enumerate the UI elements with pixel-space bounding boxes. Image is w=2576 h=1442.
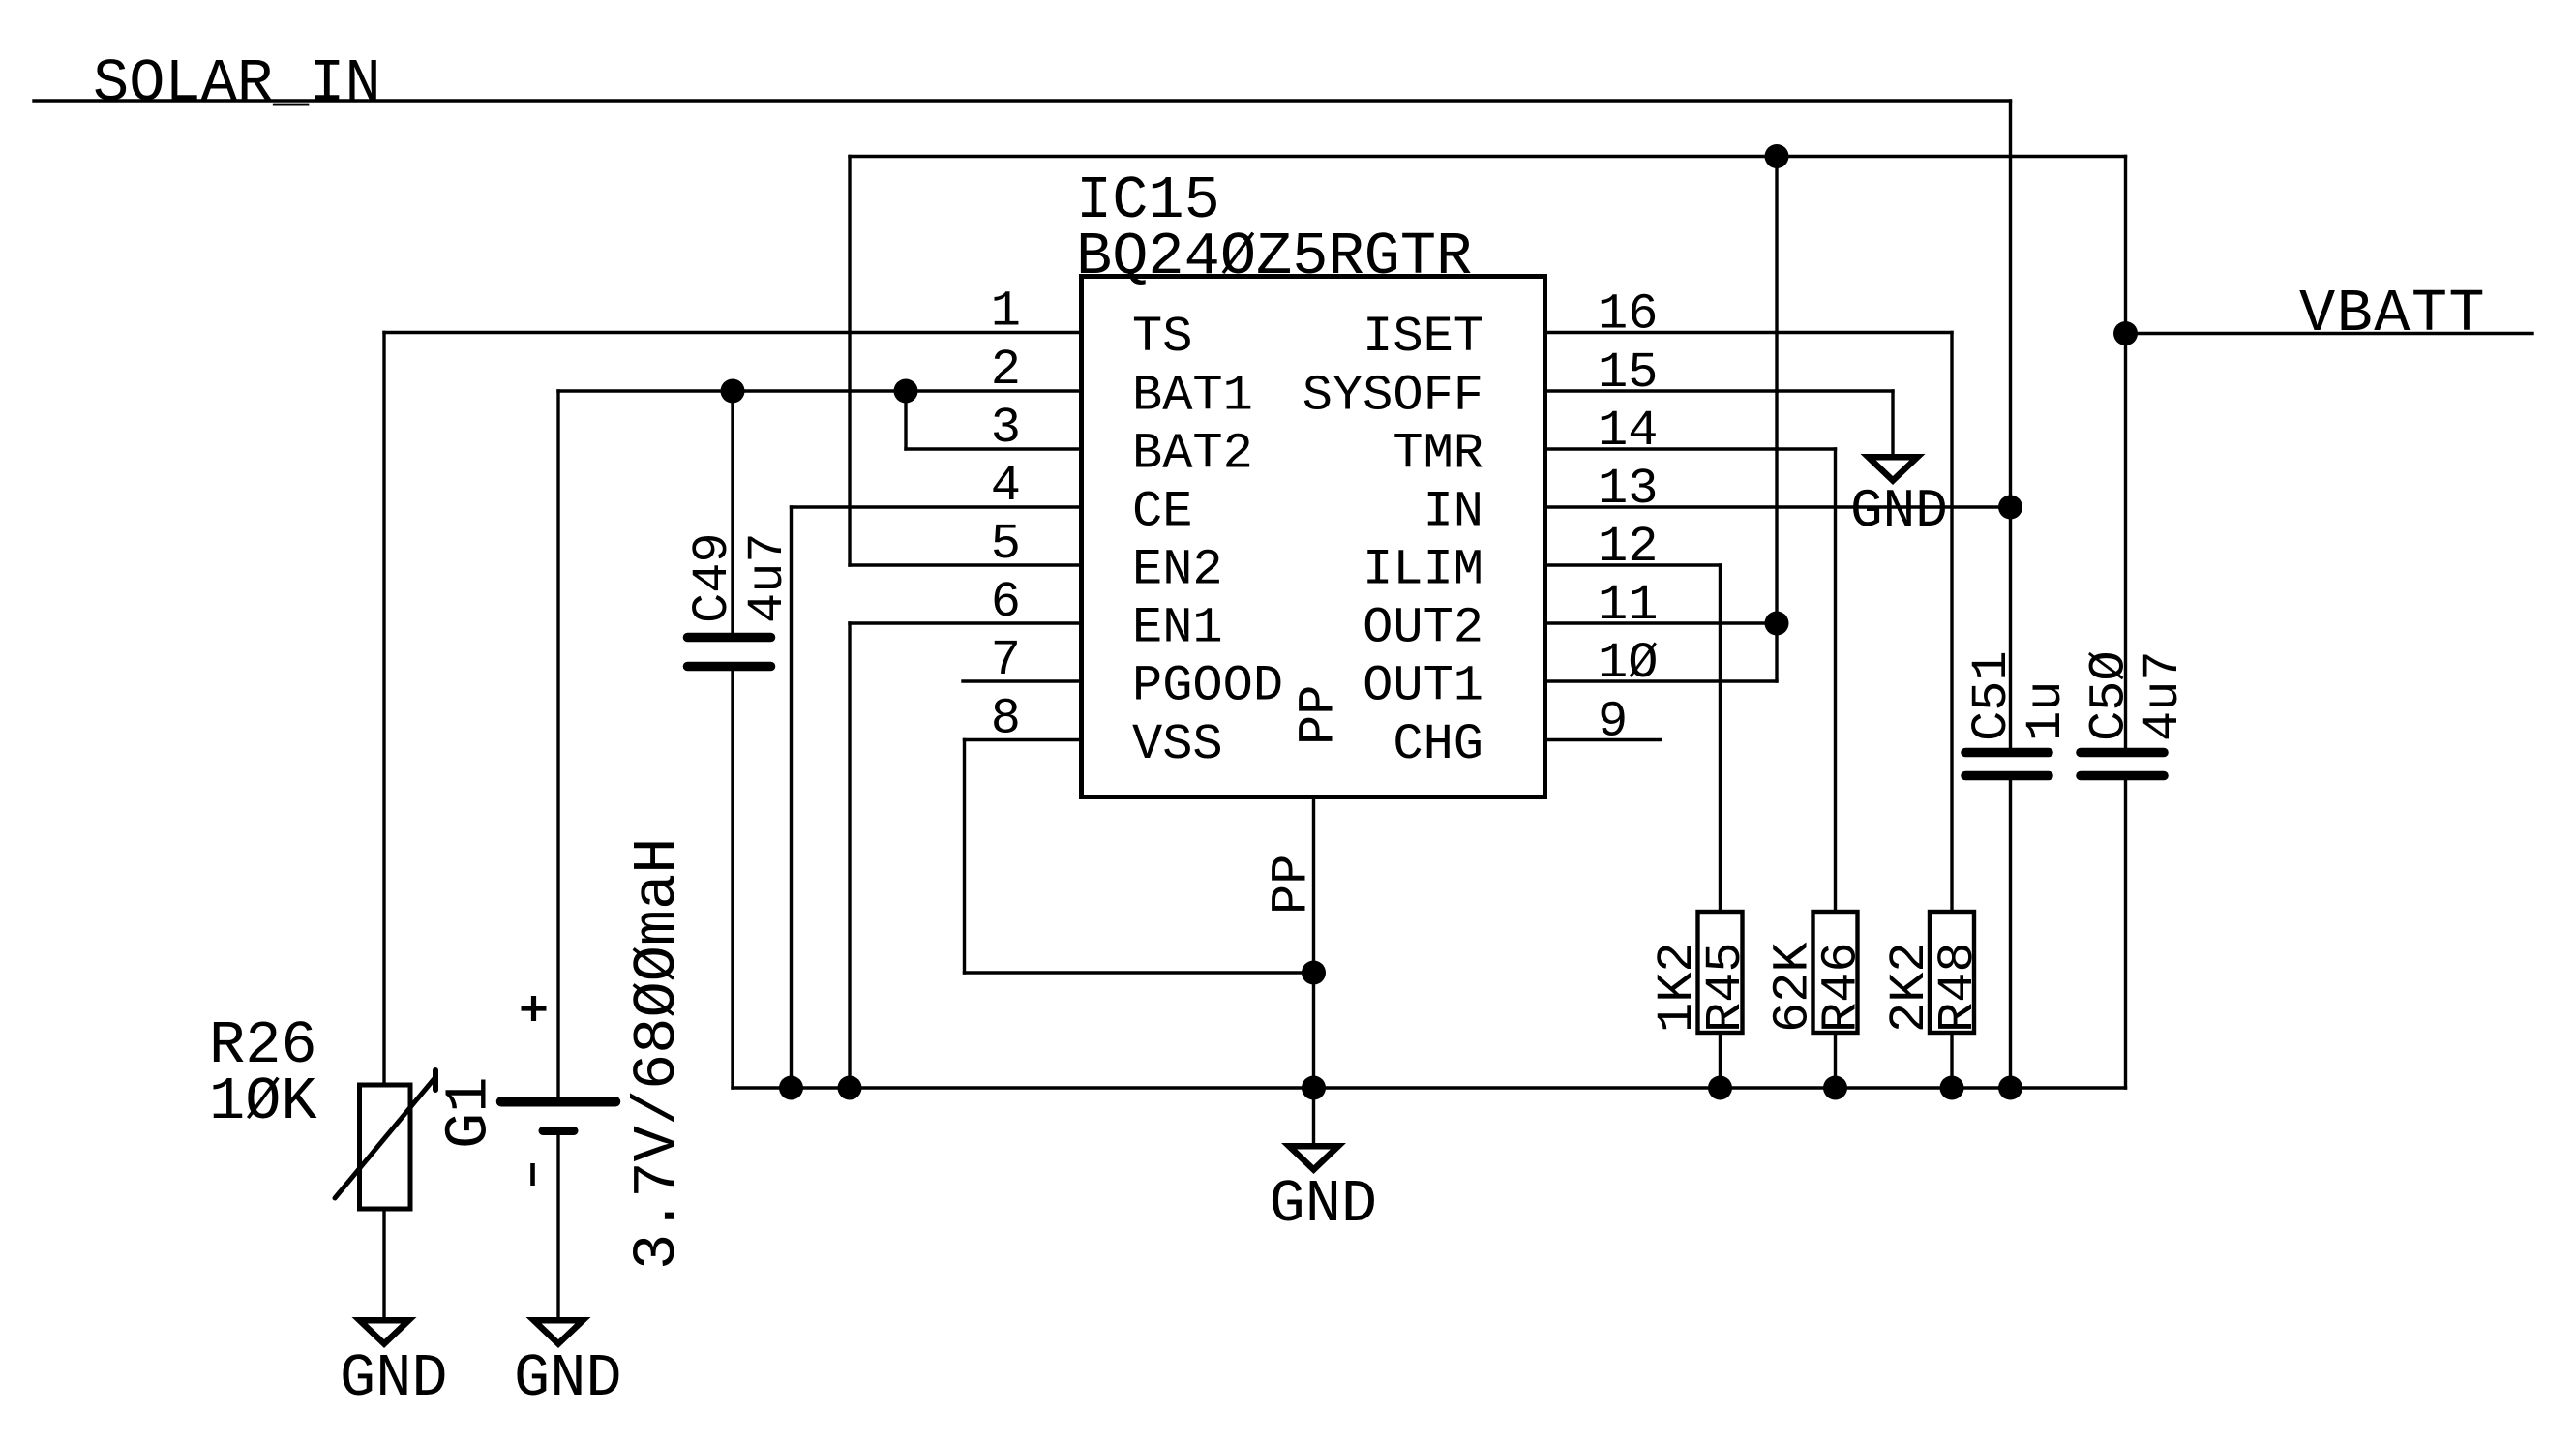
svg-text:8: 8 (991, 691, 1021, 748)
svg-text:5: 5 (991, 516, 1021, 573)
wire pin14 TMR row (1545, 447, 1836, 450)
wire net SOLAR_IN horizontal (34, 99, 2011, 102)
svg-text:14: 14 (1598, 403, 1658, 460)
svg-text:4u7: 4u7 (739, 532, 796, 623)
wire CE vertical to GND rail (790, 507, 793, 1088)
svg-text:VSS: VSS (1132, 716, 1223, 773)
svg-text:1ØK: 1ØK (209, 1067, 317, 1136)
capacitor C50 plates (2081, 748, 2164, 758)
wire BAT2 vertical (904, 391, 907, 449)
svg-text:15: 15 (1598, 345, 1658, 402)
capacitor C51 plates (1965, 748, 2049, 758)
wire pin1 TS row (384, 331, 1082, 334)
resistor R48 body (1930, 912, 1974, 1033)
wire R46 bottom to GND rail (1834, 1033, 1837, 1088)
wire pin3 BAT2 row (906, 447, 1082, 450)
wire C49 top vertical (731, 391, 734, 633)
svg-text:VBATT: VBATT (2299, 280, 2486, 348)
junction BAT1/BAT2 (894, 379, 918, 404)
junction PP / GND rail (1302, 1076, 1326, 1100)
svg-text:SYSOFF: SYSOFF (1303, 368, 1483, 425)
svg-text:GND: GND (1850, 480, 1948, 542)
wire R26 bottom to GND (382, 1209, 385, 1320)
svg-text:CHG: CHG (1393, 716, 1483, 773)
ground symbol at PP (1281, 1143, 1346, 1174)
junction IN / SOLAR_IN (1998, 496, 2022, 520)
op-amp IC15 body box (1082, 277, 1545, 797)
resistor R26 thermistor diagonal (335, 1077, 435, 1198)
junction CE / GND rail (779, 1076, 803, 1100)
wire OUT2/OUT1 vertical (1775, 157, 1778, 682)
svg-text:7: 7 (991, 632, 1021, 689)
wire battery minus to GND (556, 1135, 559, 1320)
wire pin16 ISET row (1545, 331, 1953, 334)
wire pin6 EN1 row (850, 621, 1082, 624)
wire pin7 PGOOD stub (963, 679, 1082, 682)
wire VSS vertical (963, 740, 966, 974)
svg-text:EN2: EN2 (1132, 542, 1223, 599)
resistor R45 body (1698, 912, 1743, 1033)
wire VSS loop bottom (965, 971, 1314, 974)
wire pin8 VSS row (965, 738, 1082, 741)
svg-text:EN1: EN1 (1132, 600, 1223, 657)
wire C49 bottom to GND rail (731, 671, 734, 1088)
junction C51 / GND rail (1998, 1076, 2022, 1100)
junction VBATT (2113, 321, 2138, 345)
svg-text:11: 11 (1598, 577, 1658, 634)
svg-text:16: 16 (1598, 286, 1658, 344)
svg-text:1: 1 (991, 284, 1021, 341)
junction R48 / GND rail (1940, 1076, 1964, 1100)
wire ILIM vertical to R45 (1719, 565, 1722, 912)
resistor R26 thermistor tick (433, 1070, 438, 1090)
resistor R26 thermistor body (360, 1085, 411, 1209)
wire pin2 BAT1 row (558, 389, 1082, 392)
junction top net / OUT2 branch (1765, 144, 1789, 168)
wire EN2 vertical up (848, 157, 851, 566)
wire pin4 CE row (792, 505, 1082, 508)
svg-text:1u: 1u (2018, 681, 2075, 741)
battery G1 plus sign (522, 996, 547, 1021)
svg-text:BAT1: BAT1 (1132, 368, 1253, 425)
wire PP vertical (1312, 797, 1315, 1147)
svg-text:ISET: ISET (1363, 309, 1483, 366)
svg-text:SOLAR_IN: SOLAR_IN (93, 49, 381, 118)
wire TS vertical to R26 (382, 333, 385, 1086)
wire R45 bottom to GND rail (1719, 1033, 1722, 1088)
svg-text:3.7V/68ØØmaH: 3.7V/68ØØmaH (623, 838, 692, 1270)
svg-text:C51: C51 (1963, 650, 2021, 741)
svg-text:2: 2 (991, 342, 1021, 399)
svg-text:PP: PP (1264, 855, 1321, 915)
svg-text:1K2: 1K2 (1649, 942, 1706, 1033)
wire GND rail (733, 1086, 2126, 1089)
battery G1 plus plate (501, 1097, 615, 1107)
svg-text:13: 13 (1598, 461, 1658, 518)
svg-text:PP: PP (1291, 685, 1348, 745)
junction OUT2 (1765, 612, 1789, 636)
ground symbol at G1 (526, 1317, 591, 1348)
svg-text:PGOOD: PGOOD (1132, 658, 1283, 715)
battery G1 minus plate (543, 1127, 574, 1135)
wire C50 bottom to GND rail (2124, 780, 2127, 1088)
wire net VBATT horizontal (2126, 332, 2533, 335)
wire EN1 vertical to GND rail (848, 623, 851, 1088)
svg-text:GND: GND (514, 1344, 622, 1413)
svg-text:6: 6 (991, 574, 1021, 631)
svg-text:BQ24ØZ5RGTR: BQ24ØZ5RGTR (1076, 223, 1472, 291)
junction BAT1/C49 (721, 379, 745, 404)
svg-text:BAT2: BAT2 (1132, 426, 1253, 483)
junction EN1 / GND rail (838, 1076, 862, 1100)
wire top net (EN2/OUT2/VBATT) horizontal (850, 155, 2126, 158)
wire pin5 EN2 row (850, 563, 1082, 566)
svg-text:12: 12 (1598, 519, 1658, 576)
svg-text:OUT1: OUT1 (1363, 658, 1483, 715)
svg-text:C49: C49 (684, 532, 741, 623)
wire ISET vertical to R48 (1950, 333, 1953, 913)
wire pin12 ILIM row (1545, 563, 1721, 566)
ground symbol at R26 (352, 1317, 417, 1348)
svg-text:OUT2: OUT2 (1363, 600, 1483, 657)
svg-text:GND: GND (1270, 1170, 1378, 1239)
svg-text:9: 9 (1598, 694, 1628, 751)
svg-text:TS: TS (1132, 309, 1192, 366)
svg-text:3: 3 (991, 400, 1021, 457)
svg-text:4: 4 (991, 458, 1021, 515)
wire top net vertical to VBATT and C50 (2124, 157, 2127, 749)
wire pin15 SYSOFF row (1545, 389, 1894, 392)
wire pin10 OUT1 row (1545, 679, 1778, 682)
svg-text:1Ø: 1Ø (1598, 635, 1658, 692)
svg-text:C5Ø: C5Ø (2082, 650, 2139, 741)
wire pin13 IN row (1545, 505, 2011, 508)
svg-text:4u7: 4u7 (2135, 650, 2192, 741)
wire C51 bottom to GND rail (2009, 780, 2012, 1088)
svg-text:IN: IN (1423, 484, 1483, 541)
svg-text:TMR: TMR (1393, 426, 1483, 483)
wire SOLAR_IN vertical to C51 (2009, 101, 2012, 748)
wire R48 bottom to GND rail (1950, 1033, 1953, 1088)
wire pin9 CHG stub (1545, 738, 1662, 741)
battery G1 minus sign (rotated) (530, 1163, 535, 1186)
svg-text:GND: GND (340, 1344, 448, 1413)
svg-text:2K2: 2K2 (1881, 942, 1938, 1033)
resistor R46 body (1813, 912, 1858, 1033)
capacitor C49 plates (688, 633, 771, 643)
wire BAT1 vertical to battery (556, 391, 559, 1097)
svg-text:G1: G1 (435, 1077, 504, 1149)
svg-text:62K: 62K (1765, 942, 1822, 1033)
wire TMR vertical to R46 (1834, 449, 1837, 912)
svg-text:CE: CE (1132, 484, 1192, 541)
ground symbol at SYSOFF (1861, 454, 1926, 485)
junction VSS / PP (1302, 961, 1326, 985)
junction R46 / GND rail (1823, 1076, 1847, 1100)
wire SYSOFF vertical to GND (1891, 391, 1894, 457)
wire pin11 OUT2 row (1545, 621, 1778, 624)
junction R45 / GND rail (1708, 1076, 1732, 1100)
svg-text:ILIM: ILIM (1363, 542, 1483, 599)
